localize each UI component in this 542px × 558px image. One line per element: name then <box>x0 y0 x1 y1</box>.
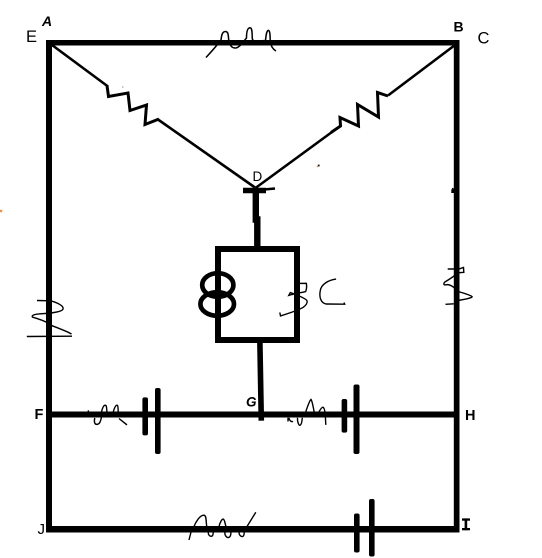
capacitor C2 plate 1 (right capacitor on F-H bus) <box>342 399 348 433</box>
capacitor C3 plate 1 (on bottom bus J-I) <box>354 514 360 553</box>
svg-text:H: H <box>465 408 475 424</box>
wire: diagonal lead from resistor R1 down to node D <box>158 120 255 188</box>
svg-text:B: B <box>454 19 464 35</box>
capacitor C1 plate 2 <box>155 388 161 454</box>
wire: diagonal lead from resistor R2 down to node D <box>256 132 333 188</box>
wire: left border E-to-J of outer loop <box>46 40 52 532</box>
annotation scribble on left border <box>27 301 72 337</box>
node D terminal bar <box>243 188 266 194</box>
resistor R2 (right, sawtooth zigzag on diagonal B-D) <box>331 93 388 133</box>
annotation scribble "3" across machine box right border <box>280 283 307 316</box>
svg-text:J: J <box>38 521 46 538</box>
capacitor C1 plate 1 (left capacitor on F-H bus) <box>142 397 148 435</box>
wire: vertical from node D down to machine box top <box>256 190 257 248</box>
annotation scribble on right border <box>444 267 472 304</box>
svg-text:E: E <box>26 28 37 46</box>
annotation scribble on bottom border <box>189 512 256 540</box>
svg-text:D: D <box>253 169 263 184</box>
stray notch on right border <box>451 188 455 194</box>
wire: diagonal lead from corner B/C down to resistor R2 <box>388 45 455 96</box>
capacitor C3 plate 2 <box>369 499 375 557</box>
wire: top border E-to-C of outer loop <box>46 40 460 46</box>
machine symbol M1: lower circle <box>200 292 234 316</box>
svg-text:F: F <box>35 407 44 423</box>
svg-text:A: A <box>41 13 52 29</box>
resistor R1 (left, step-zigzag on diagonal A-D) <box>107 86 159 125</box>
wire: diagonal lead from corner A/E down to resistor R1 <box>52 45 108 87</box>
svg-text:G: G <box>246 395 257 410</box>
annotation scribble on top border <box>206 28 276 58</box>
machine box U1 (square enclosure) <box>218 249 297 340</box>
wire: bottom border J-to-I of outer loop <box>46 526 460 533</box>
annotation scribble "C" right of machine box <box>320 279 345 304</box>
wire: middle horizontal bus F-to-H <box>52 412 454 418</box>
wire: right border C-to-I of outer loop <box>454 40 460 533</box>
wire: vertical from machine box bottom to node G <box>260 343 261 421</box>
label I (serif capital I drawn with bars) <box>462 518 470 530</box>
annotation scribble left of capacitor C1 <box>88 405 127 425</box>
annotation scribble left of capacitor C2 <box>288 399 326 425</box>
stray faint dot near resistor R1 <box>122 86 123 87</box>
stray orange mark on far left edge <box>0 210 2 212</box>
machine symbol M1: upper circle <box>202 273 233 297</box>
capacitor C2 plate 2 <box>354 385 360 455</box>
svg-text:C: C <box>478 30 490 48</box>
stray dot near right diagonal <box>318 165 320 167</box>
